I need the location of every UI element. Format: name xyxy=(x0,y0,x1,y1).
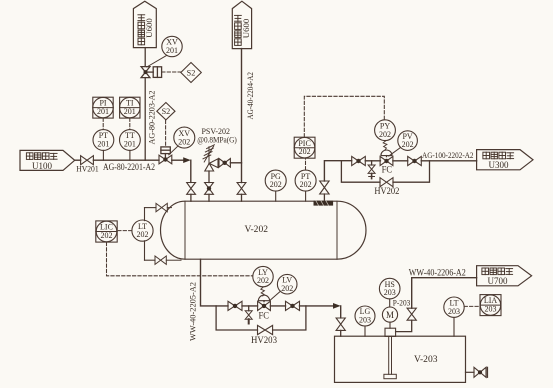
control valve PV-202 (FC) with diaphragm actuator xyxy=(380,141,393,175)
valve XV-201 (on-off valve with piston actuator) xyxy=(141,67,161,78)
wire AG-40-2204-A2 header (banner down to valve) xyxy=(241,49,243,183)
instrument bubble HS-203 xyxy=(379,278,400,307)
svg-text:WW-40-2206-A2: WW-40-2206-A2 xyxy=(409,267,466,277)
valve (ball) upstream of LV-202 xyxy=(228,301,242,310)
instrument bubble PG-202 xyxy=(265,170,286,201)
valve XV-202 (shutdown valve with piston actuator) xyxy=(159,147,172,164)
motor M of pump P-203 xyxy=(382,307,397,328)
wire LT-202 lower tap xyxy=(145,259,156,261)
svg-text:S2: S2 xyxy=(162,107,171,116)
pump P-203 (vertical sump pump) xyxy=(384,328,396,378)
valve on LT-202 upper tap xyxy=(156,203,167,211)
svg-text:202: 202 xyxy=(379,130,391,139)
svg-text:@0.8MPa(G): @0.8MPa(G) xyxy=(197,135,237,145)
instrument bubble PY-202 xyxy=(375,120,396,141)
svg-text:202: 202 xyxy=(178,137,190,146)
svg-text:202: 202 xyxy=(299,147,311,156)
valve on LT-202 lower tap xyxy=(155,256,166,264)
svg-text:V-202: V-202 xyxy=(245,224,269,235)
wire PSV nozzle stem into V-202 xyxy=(208,194,210,201)
svg-text:FC: FC xyxy=(259,310,270,320)
wire between ball valve and FC valve xyxy=(365,160,380,162)
signal LIC-202 to LY-202 xyxy=(107,242,253,275)
drain valve with cap (between block and FC valve) xyxy=(368,161,375,179)
wire upper tap into vessel head xyxy=(167,207,171,209)
instrument bubble XV-201 xyxy=(147,36,182,67)
wire vapour nozzle stem to flame arrester xyxy=(323,194,325,201)
wire AG-80-2203-A2 (valve down to main line) xyxy=(144,78,146,161)
svg-text:202: 202 xyxy=(281,284,293,293)
wire between LV valve and downstream ball valve xyxy=(270,305,285,307)
svg-text:203: 203 xyxy=(448,307,460,316)
off-page connector U600 (treating unit, middle top) xyxy=(232,1,251,48)
valve (gate) on pump discharge riser xyxy=(407,308,416,320)
wire HV203 bypass xyxy=(216,306,257,330)
svg-text:V-203: V-203 xyxy=(414,354,438,365)
relief valve PSV-202 spring xyxy=(203,145,214,163)
valve (gate) on AG-40-2204-A2 at vessel xyxy=(237,183,246,195)
svg-text:WW-40-2205-A2: WW-40-2205-A2 xyxy=(187,282,197,341)
svg-text:202: 202 xyxy=(101,231,113,240)
wire HV202 bypass xyxy=(341,161,380,183)
valve (gate) on V-203 feed xyxy=(336,318,345,330)
valve (ball) under PSV xyxy=(205,183,214,195)
wire LT-202 standpipe upper xyxy=(144,208,146,221)
signal PI-201 to PT-201 xyxy=(102,118,104,129)
signal TI-201 to TT-201 xyxy=(129,118,131,129)
wire pump discharge to riser xyxy=(396,320,412,331)
svg-text:U600: U600 xyxy=(241,18,251,38)
relief valve PSV-202 body (angle valve) xyxy=(205,159,218,171)
svg-text:AG-80-2203-A2: AG-80-2203-A2 xyxy=(146,91,156,145)
instrument LIC-202 (level controller) xyxy=(96,221,132,242)
wire V-203 drain xyxy=(466,371,475,373)
interlock S2 (top) xyxy=(162,63,202,83)
svg-text:M: M xyxy=(386,310,394,320)
svg-text:P-203: P-203 xyxy=(393,298,411,308)
valve HV202 (bypass globe) xyxy=(380,178,393,187)
instrument TI-201 (shared display) xyxy=(120,97,140,118)
svg-text:202: 202 xyxy=(402,140,414,149)
svg-text:HV202: HV202 xyxy=(374,186,399,196)
control valve LV-202 (FC) with diaphragm actuator xyxy=(258,287,271,320)
svg-text:201: 201 xyxy=(124,140,136,149)
flame arrester block inside V-202 top xyxy=(314,201,334,206)
instrument bubble LV-202 xyxy=(270,274,297,300)
svg-text:203: 203 xyxy=(485,305,497,314)
wire AG-100-2202-A2 to U300 xyxy=(421,160,476,162)
off-page connector U600 (treating unit, left top) xyxy=(133,1,156,47)
wire feed nozzle stem into V-202 xyxy=(190,194,192,201)
signal PIC-202 to PY-202 xyxy=(304,96,384,137)
instrument bubble PT-202 xyxy=(295,170,316,201)
instrument bubble LT-203 xyxy=(444,297,464,336)
tank V-203 xyxy=(335,336,466,382)
off-page connector U100 (compression unit) xyxy=(20,150,75,170)
svg-text:S2: S2 xyxy=(187,69,196,78)
wire V-202 bottom outlet WW-40-2205-A2 xyxy=(201,259,229,306)
svg-text:201: 201 xyxy=(97,140,109,149)
svg-text:AG-40-2204-A2: AG-40-2204-A2 xyxy=(246,72,255,120)
wire AG-80-2203-A2 riser (banner to XV-201 valve) xyxy=(144,48,146,67)
valve HV203 (bypass globe) xyxy=(258,325,273,334)
instrument PI-201 (shared display) xyxy=(93,97,113,118)
svg-text:201: 201 xyxy=(124,107,136,116)
wire AG-40-2204 nozzle stem into V-202 xyxy=(241,194,243,201)
svg-text:203: 203 xyxy=(359,316,371,325)
valve (ball) downstream of FC pressure valve xyxy=(408,156,422,165)
interlock S2 (lower) xyxy=(157,103,175,147)
svg-text:U600: U600 xyxy=(144,18,154,38)
instrument LIA-203 (level alarm, shared display) xyxy=(464,295,501,316)
valve (gate) on V-202 vapour outlet nozzle xyxy=(320,181,329,194)
svg-text:202: 202 xyxy=(300,180,312,189)
off-page connector U700 (treating unit, bottom right) xyxy=(477,266,532,286)
svg-text:FC: FC xyxy=(382,164,393,174)
valve on V-203 drain with blind cap xyxy=(474,367,487,377)
svg-text:U300: U300 xyxy=(489,160,509,170)
instrument bubble LT-202 xyxy=(132,220,153,241)
wire main line HV201 to XV-202 valve xyxy=(93,159,159,161)
wire between ball valve and LV valve xyxy=(242,305,258,307)
svg-text:203: 203 xyxy=(384,288,396,297)
instrument bubble XV-202 xyxy=(169,127,195,155)
valve (ball) on PSV outlet xyxy=(219,159,230,168)
svg-text:HV203: HV203 xyxy=(251,335,277,345)
wire feed stem into V-203 xyxy=(340,330,342,336)
instrument bubble PT-201 xyxy=(93,130,114,161)
svg-text:201: 201 xyxy=(166,46,178,55)
svg-text:AG-100-2202-A2: AG-100-2202-A2 xyxy=(422,150,474,160)
svg-text:201: 201 xyxy=(97,107,109,116)
svg-text:202: 202 xyxy=(270,180,282,189)
vessel V-202 (horizontal drum) xyxy=(161,201,366,259)
svg-text:HV201: HV201 xyxy=(76,163,99,173)
wire LT-202 standpipe lower xyxy=(144,241,146,260)
valve HV201 (gate valve) xyxy=(81,156,94,165)
valve (ball) upstream of FC pressure valve xyxy=(352,156,366,165)
valve (gate) on vessel feed nozzle xyxy=(187,183,196,195)
instrument bubble PV-202 xyxy=(389,131,418,156)
wire main feed line AG-80-2201-A2 xyxy=(75,159,81,161)
instrument bubble LG-203 (level gauge) xyxy=(355,306,375,336)
instrument bubble TT-201 xyxy=(119,130,140,161)
wire riser from V-202 top to pressure control line xyxy=(324,161,351,181)
instrument bubble LY-202 xyxy=(253,266,273,286)
svg-text:U700: U700 xyxy=(488,276,508,286)
wire main line XV-202 valve to vessel drop with flow arrow xyxy=(172,157,191,182)
wire PSV outlet to AG-40-2204-A2 header xyxy=(230,162,241,164)
valve (ball) downstream of LV-202 xyxy=(286,301,300,310)
wire between FC valve and downstream ball valve xyxy=(393,160,408,162)
wire PSV inlet down to block valve xyxy=(208,171,210,183)
wire WW-40-2206-A2 riser and header to U700 xyxy=(412,278,477,309)
drain valve with cap (between block and LV valve) xyxy=(245,306,252,324)
svg-text:202: 202 xyxy=(137,230,149,239)
instrument PIC-202 (controller, shared display) xyxy=(294,137,315,170)
wire to V-203 with flow arrow xyxy=(300,303,341,318)
wire LT-202 upper tap xyxy=(145,207,157,209)
svg-text:U100: U100 xyxy=(32,161,52,171)
svg-text:202: 202 xyxy=(257,276,269,285)
off-page connector U300 (process unit, right) xyxy=(477,150,533,171)
wire lower tap into vessel head xyxy=(166,259,181,261)
svg-text:AG-80-2201-A2: AG-80-2201-A2 xyxy=(103,162,155,172)
